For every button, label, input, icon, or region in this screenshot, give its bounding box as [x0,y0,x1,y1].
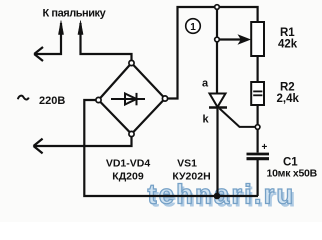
wire: wiper arrow to R1 [219,38,246,40]
node: bridge right terminal [162,96,167,101]
svg-text:VD1-VD4: VD1-VD4 [106,158,151,170]
junction dot: cathode to bottom rail [214,193,221,200]
arrowhead up arrow 1 [58,21,63,35]
node label circle 1 [186,19,201,34]
wire: thyristor gate to node [220,109,256,127]
wire: capacitor to bottom rail [257,160,259,196]
svg-text:k: k [203,114,210,126]
thyristor VS1 [210,94,226,108]
svg-text:+: + [262,142,268,153]
node circle 1 on top rail [215,5,220,10]
label ~ tilde [18,96,29,100]
node: bridge bottom terminal [129,131,134,136]
wire: up-arrow 2 to bridge top [81,23,132,60]
svg-text:1: 1 [190,22,196,33]
svg-text:tehnari.ru: tehnari.ru [148,179,296,210]
svg-text:42k: 42k [278,39,298,51]
wire: R1 bottom to R2 top [257,56,259,82]
R2 power marks [253,90,262,92]
wire: left mains arrow to up-arrow 1 [34,23,61,54]
svg-text:2,4k: 2,4k [277,93,300,105]
wire: R2 bottom to gate node [257,105,259,125]
wire: top rail node down to wiper node [216,9,218,37]
bridge rectifier VD1-VD4 [99,63,166,134]
arrowhead left (top mains arrow) [34,47,43,61]
diode inside bridge [111,93,145,105]
svg-text:КД209: КД209 [112,171,144,183]
node: bridge top terminal [129,60,134,65]
resistor R1 (potentiometer) [251,22,264,56]
wire: bridge bottom terminal to left mains arrow [34,137,132,146]
wire: bridge right terminal up to top rail [168,7,258,99]
wire: wiper node down to thyristor anode [216,42,218,94]
svg-text:R2: R2 [280,82,295,94]
node: bridge left terminal [96,97,101,102]
svg-text:R1: R1 [280,27,295,39]
node: gate junction circle [255,125,260,130]
thyristor cathode bar [209,106,227,108]
arrowhead left (bottom mains arrow) [34,139,43,154]
wire: gate node down to capacitor [257,129,259,152]
arrowhead up arrow 2 [78,21,83,35]
watermark tehnari.ru [148,179,298,213]
svg-text:VS1: VS1 [177,158,197,170]
svg-text:К паяльнику: К паяльнику [43,8,107,20]
svg-text:a: a [202,78,209,90]
wire: thyristor cathode to bottom rail [216,108,218,197]
arrowhead wiper [238,34,252,45]
node: wiper junction circle [215,37,220,42]
svg-text:10мк х50В: 10мк х50В [267,168,318,180]
capacitor C1 plates [247,153,270,156]
svg-text:220В: 220В [39,95,65,107]
wire: bridge left terminal to bottom rail [84,100,258,196]
resistor R2 [251,82,264,105]
svg-text:КУ202Н: КУ202Н [172,171,210,183]
